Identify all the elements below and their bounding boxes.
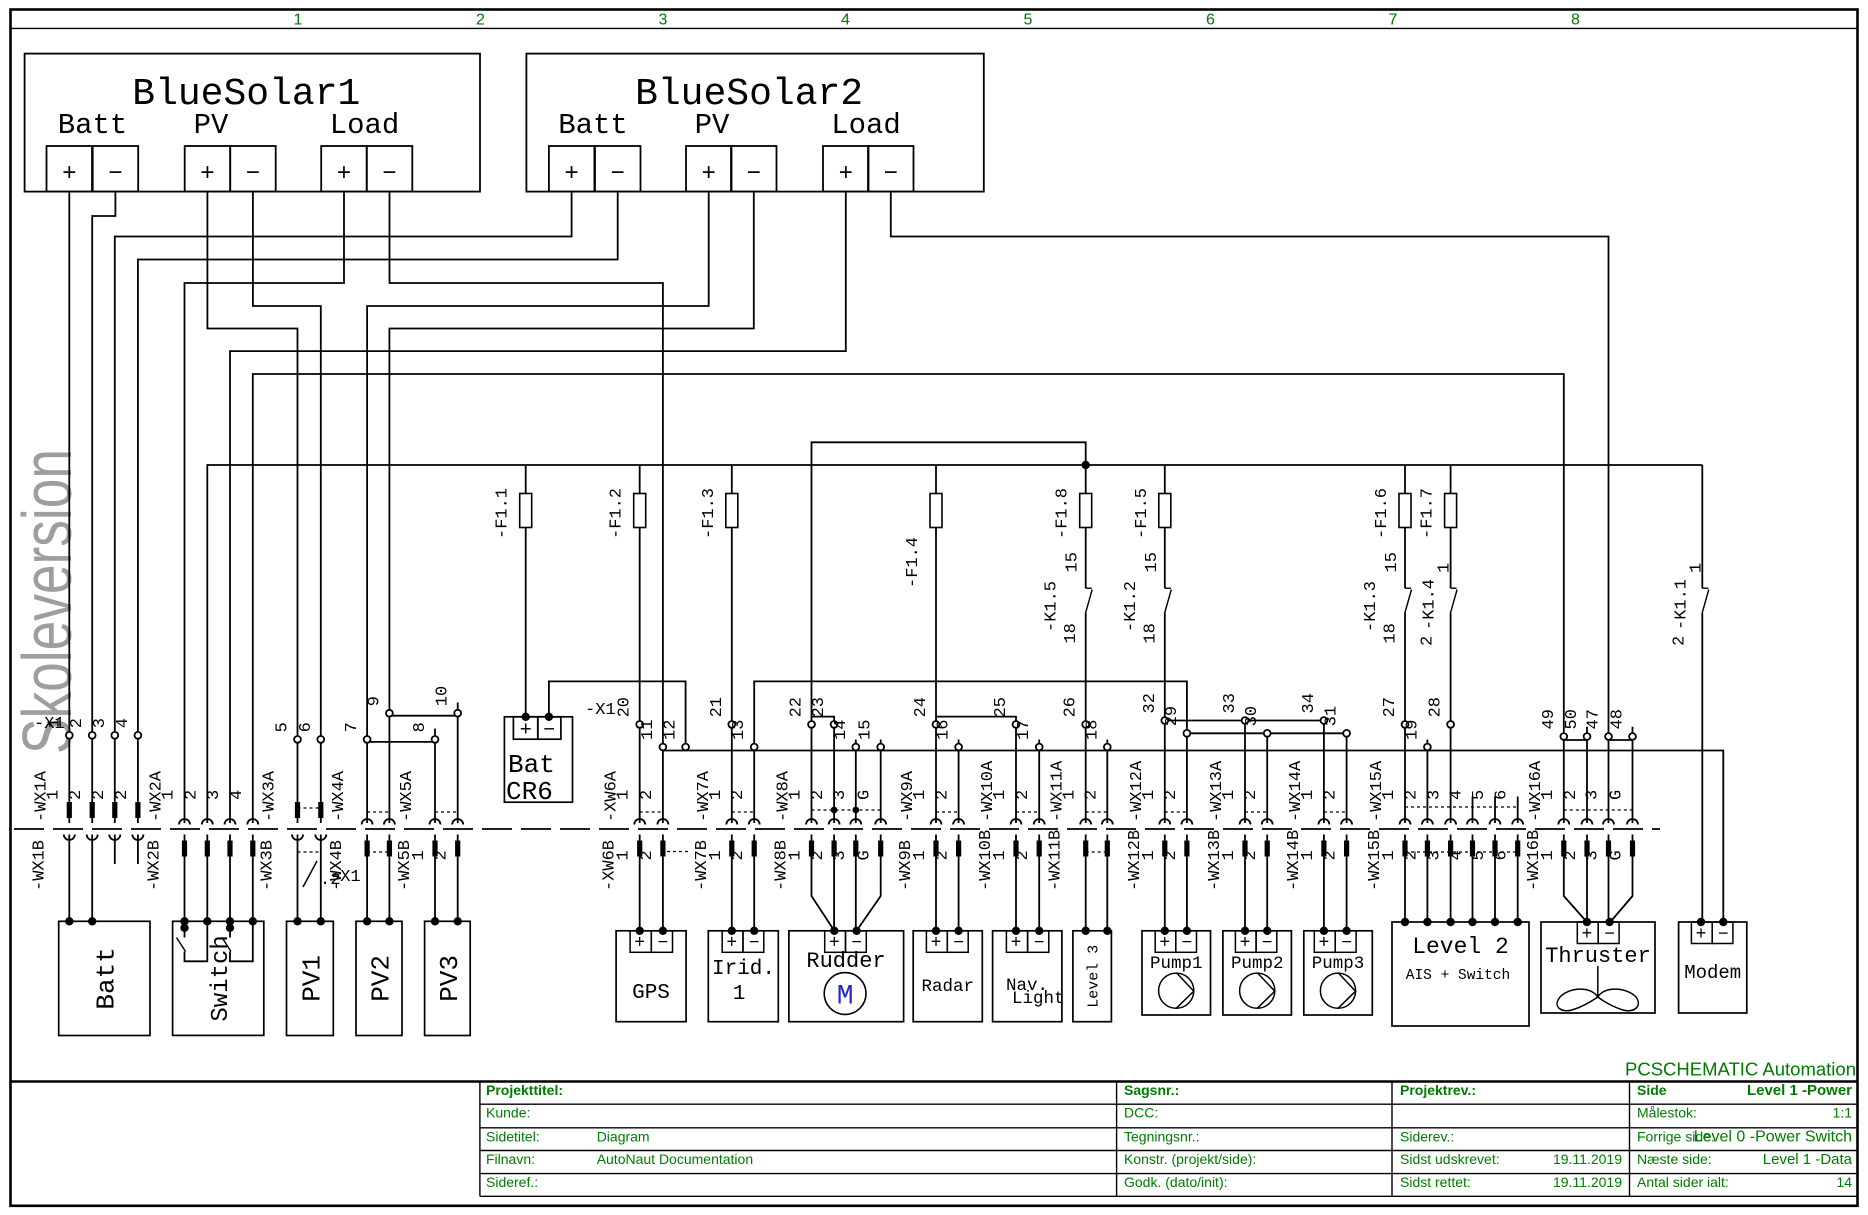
svg-text:1: 1 bbox=[410, 850, 429, 860]
svg-text:49: 49 bbox=[1540, 709, 1559, 729]
svg-text:13: 13 bbox=[730, 720, 749, 740]
svg-text:2: 2 bbox=[1322, 790, 1341, 800]
svg-text:PV: PV bbox=[194, 109, 229, 142]
svg-text:GPS: GPS bbox=[632, 982, 670, 1005]
svg-text:1: 1 bbox=[707, 850, 726, 860]
svg-text:2: 2 bbox=[638, 850, 657, 860]
svg-text:Load: Load bbox=[330, 109, 400, 142]
svg-text:Skoleversion: Skoleversion bbox=[8, 449, 86, 754]
svg-text:1: 1 bbox=[911, 850, 930, 860]
svg-text:+: + bbox=[200, 161, 214, 188]
svg-text:2: 2 bbox=[934, 790, 953, 800]
svg-text:BlueSolar1: BlueSolar1 bbox=[132, 73, 360, 116]
svg-text:+: + bbox=[520, 720, 532, 743]
svg-text:−: − bbox=[246, 161, 260, 188]
svg-text:Næste side:: Næste side: bbox=[1637, 1151, 1712, 1167]
svg-text:-F1.8: -F1.8 bbox=[1054, 488, 1073, 539]
svg-text:PV1: PV1 bbox=[297, 955, 327, 1002]
svg-text:28: 28 bbox=[1427, 697, 1446, 717]
svg-text:Light: Light bbox=[1012, 989, 1065, 1009]
svg-text:−: − bbox=[884, 161, 898, 188]
svg-text:1: 1 bbox=[991, 850, 1010, 860]
svg-text:Sidetitel:: Sidetitel: bbox=[486, 1128, 540, 1144]
svg-text:1: 1 bbox=[787, 790, 806, 800]
svg-text:1: 1 bbox=[1380, 790, 1399, 800]
svg-text:+: + bbox=[1696, 925, 1707, 945]
svg-text:2: 2 bbox=[1402, 790, 1421, 800]
svg-text:10: 10 bbox=[434, 686, 453, 706]
svg-text:-F1.2: -F1.2 bbox=[608, 488, 627, 539]
svg-text:−: − bbox=[1034, 934, 1045, 954]
svg-text:-X1: -X1 bbox=[34, 715, 65, 734]
svg-text:27: 27 bbox=[1381, 697, 1400, 717]
svg-text:1: 1 bbox=[707, 790, 726, 800]
svg-text:Pump2: Pump2 bbox=[1231, 954, 1284, 974]
svg-text:22: 22 bbox=[788, 697, 807, 717]
svg-text:Sagsnr.:: Sagsnr.: bbox=[1124, 1082, 1179, 1098]
svg-text:Godk. (dato/init):: Godk. (dato/init): bbox=[1124, 1174, 1228, 1190]
svg-text:19.11.2019: 19.11.2019 bbox=[1553, 1151, 1622, 1167]
svg-text:Level 1 -Power: Level 1 -Power bbox=[1747, 1082, 1852, 1099]
svg-text:47: 47 bbox=[1585, 709, 1604, 729]
svg-text:2: 2 bbox=[1562, 790, 1581, 800]
svg-text:19.11.2019: 19.11.2019 bbox=[1553, 1174, 1622, 1190]
svg-text:−: − bbox=[108, 161, 122, 188]
svg-text:16: 16 bbox=[935, 720, 954, 740]
svg-text:26: 26 bbox=[1062, 697, 1081, 717]
svg-text:2: 2 bbox=[638, 790, 657, 800]
svg-text:AutoNaut Documentation: AutoNaut Documentation bbox=[597, 1151, 753, 1167]
svg-text:Tegningsnr.:: Tegningsnr.: bbox=[1124, 1128, 1200, 1144]
svg-text:4: 4 bbox=[1448, 790, 1467, 800]
svg-text:8: 8 bbox=[1571, 12, 1580, 29]
svg-text:-WX8B: -WX8B bbox=[773, 840, 792, 891]
svg-text:-WX5B: -WX5B bbox=[396, 840, 415, 891]
svg-text:2: 2 bbox=[1014, 790, 1033, 800]
svg-text:Filnavn:: Filnavn: bbox=[486, 1151, 535, 1167]
svg-text:6: 6 bbox=[1493, 790, 1512, 800]
svg-text:−: − bbox=[657, 934, 668, 954]
svg-text:Diagram: Diagram bbox=[597, 1128, 650, 1144]
svg-text:1: 1 bbox=[991, 790, 1010, 800]
svg-text:G: G bbox=[856, 790, 875, 800]
svg-text:25: 25 bbox=[992, 697, 1011, 717]
svg-text:+: + bbox=[1159, 934, 1170, 954]
svg-text:-WX3B: -WX3B bbox=[259, 840, 278, 891]
svg-text:1: 1 bbox=[1539, 850, 1558, 860]
svg-text:30: 30 bbox=[1243, 706, 1262, 726]
svg-text:Rudder: Rudder bbox=[806, 949, 885, 974]
svg-text:-F1.6: -F1.6 bbox=[1373, 488, 1392, 539]
svg-text:1: 1 bbox=[1299, 790, 1318, 800]
svg-text:-K1.1: -K1.1 bbox=[1672, 579, 1691, 630]
svg-text:−: − bbox=[747, 161, 761, 188]
svg-text:Pump3: Pump3 bbox=[1312, 954, 1365, 974]
svg-text:-WX9B: -WX9B bbox=[897, 840, 916, 891]
svg-text:2: 2 bbox=[67, 790, 86, 800]
svg-text:PV2: PV2 bbox=[366, 955, 396, 1002]
svg-text:+: + bbox=[931, 934, 942, 954]
svg-text:+: + bbox=[839, 161, 853, 188]
svg-text:1: 1 bbox=[1061, 790, 1080, 800]
svg-text:48: 48 bbox=[1609, 709, 1628, 729]
svg-text:18: 18 bbox=[1141, 623, 1160, 643]
svg-text:1: 1 bbox=[1380, 850, 1399, 860]
svg-text:Konstr. (projekt/side):: Konstr. (projekt/side): bbox=[1124, 1151, 1256, 1167]
svg-text:32: 32 bbox=[1141, 693, 1160, 713]
svg-text:+: + bbox=[701, 161, 715, 188]
svg-text:1: 1 bbox=[615, 790, 634, 800]
svg-text:+: + bbox=[564, 161, 578, 188]
svg-text:3: 3 bbox=[659, 12, 668, 29]
svg-text:5: 5 bbox=[1470, 790, 1489, 800]
svg-text:Radar: Radar bbox=[921, 977, 974, 997]
svg-text:-K1.2: -K1.2 bbox=[1122, 581, 1141, 632]
svg-text:Level 3: Level 3 bbox=[1086, 945, 1103, 1008]
svg-text:Projektrev.:: Projektrev.: bbox=[1400, 1082, 1476, 1098]
svg-text:2: 2 bbox=[182, 790, 201, 800]
svg-text:+: + bbox=[634, 934, 645, 954]
svg-text:Switch: Switch bbox=[208, 935, 235, 1021]
svg-text:-WX5A: -WX5A bbox=[398, 770, 417, 822]
svg-text:6: 6 bbox=[297, 722, 316, 732]
svg-text:−: − bbox=[1718, 925, 1729, 945]
svg-text:1: 1 bbox=[615, 850, 634, 860]
svg-text:-WX3A: -WX3A bbox=[261, 770, 280, 822]
svg-text:+: + bbox=[1240, 934, 1251, 954]
svg-text:18: 18 bbox=[1062, 623, 1081, 643]
svg-text:Bat: Bat bbox=[508, 750, 555, 780]
svg-text:1: 1 bbox=[1687, 563, 1706, 573]
svg-text:3: 3 bbox=[1584, 790, 1603, 800]
svg-text:PV: PV bbox=[695, 109, 730, 142]
svg-text:34: 34 bbox=[1300, 693, 1319, 713]
svg-text:+: + bbox=[62, 161, 76, 188]
svg-text:−: − bbox=[543, 720, 555, 743]
svg-text:50: 50 bbox=[1563, 709, 1582, 729]
svg-text:Level 1 -Data: Level 1 -Data bbox=[1763, 1151, 1853, 1168]
svg-text:AIS + Switch: AIS + Switch bbox=[1406, 968, 1510, 984]
svg-text:18: 18 bbox=[1083, 720, 1102, 740]
svg-text:Modem: Modem bbox=[1684, 962, 1741, 984]
svg-text:+: + bbox=[726, 934, 737, 954]
svg-text:18: 18 bbox=[1382, 623, 1401, 643]
svg-text:20: 20 bbox=[616, 697, 635, 717]
svg-text:2: 2 bbox=[1242, 790, 1261, 800]
svg-text:-WX11B: -WX11B bbox=[1047, 830, 1066, 891]
svg-text:1: 1 bbox=[1220, 850, 1239, 860]
svg-text:−: − bbox=[953, 934, 964, 954]
svg-text:2: 2 bbox=[1670, 636, 1689, 646]
svg-text:PV3: PV3 bbox=[435, 955, 465, 1002]
svg-text:Sideref.:: Sideref.: bbox=[486, 1174, 538, 1190]
svg-text:29: 29 bbox=[1163, 706, 1182, 726]
svg-text:-WX7B: -WX7B bbox=[693, 840, 712, 891]
svg-text:Projekttitel:: Projekttitel: bbox=[486, 1082, 563, 1098]
svg-text:1: 1 bbox=[44, 790, 63, 800]
svg-text:7: 7 bbox=[343, 722, 362, 732]
svg-text:1: 1 bbox=[1140, 790, 1159, 800]
svg-text:Sidst udskrevet:: Sidst udskrevet: bbox=[1400, 1151, 1500, 1167]
svg-text:2: 2 bbox=[1562, 850, 1581, 860]
svg-text:-X1: -X1 bbox=[585, 701, 616, 720]
svg-text:2: 2 bbox=[90, 790, 109, 800]
svg-text:Batt: Batt bbox=[558, 109, 628, 142]
svg-text:2: 2 bbox=[1162, 790, 1181, 800]
svg-text:-F1.7: -F1.7 bbox=[1419, 488, 1438, 539]
svg-text:Sidst rettet:: Sidst rettet: bbox=[1400, 1174, 1471, 1190]
svg-text:1:1: 1:1 bbox=[1833, 1105, 1853, 1121]
svg-text:CR6: CR6 bbox=[506, 777, 553, 807]
svg-text:Side: Side bbox=[1637, 1082, 1667, 1098]
svg-text:2: 2 bbox=[1082, 790, 1101, 800]
svg-text:−: − bbox=[382, 161, 396, 188]
svg-text:3: 3 bbox=[91, 718, 110, 728]
svg-text:1: 1 bbox=[160, 790, 179, 800]
svg-text:4: 4 bbox=[841, 12, 850, 29]
svg-text:-K1.4: -K1.4 bbox=[1421, 579, 1440, 630]
svg-text:7: 7 bbox=[1389, 12, 1398, 29]
svg-text:1: 1 bbox=[294, 12, 303, 29]
svg-text:−: − bbox=[1181, 934, 1192, 954]
svg-text:+: + bbox=[1011, 934, 1022, 954]
svg-text:Antal sider ialt:: Antal sider ialt: bbox=[1637, 1174, 1729, 1190]
svg-text:-K1.5: -K1.5 bbox=[1043, 581, 1062, 632]
svg-text:15: 15 bbox=[857, 720, 876, 740]
svg-text:1: 1 bbox=[1539, 790, 1558, 800]
svg-text:-XW6B: -XW6B bbox=[601, 840, 620, 891]
svg-text:15: 15 bbox=[1064, 552, 1083, 572]
svg-text:4: 4 bbox=[114, 718, 133, 728]
svg-text:-X1: -X1 bbox=[330, 868, 361, 887]
svg-text:−: − bbox=[1341, 934, 1352, 954]
svg-text:1: 1 bbox=[787, 850, 806, 860]
svg-text:2: 2 bbox=[68, 718, 87, 728]
svg-text:Load: Load bbox=[831, 109, 901, 142]
svg-text:Thruster: Thruster bbox=[1545, 944, 1651, 969]
svg-text:15: 15 bbox=[1383, 552, 1402, 572]
svg-text:2: 2 bbox=[729, 790, 748, 800]
svg-text:19: 19 bbox=[1403, 720, 1422, 740]
svg-text:Level 0 -Power Switch: Level 0 -Power Switch bbox=[1694, 1128, 1852, 1145]
svg-text:4: 4 bbox=[228, 790, 247, 800]
svg-text:8: 8 bbox=[411, 722, 430, 732]
svg-text:3: 3 bbox=[1426, 790, 1445, 800]
svg-text:1: 1 bbox=[1436, 563, 1455, 573]
svg-text:Målestok:: Målestok: bbox=[1637, 1105, 1697, 1121]
svg-text:1: 1 bbox=[733, 983, 746, 1006]
svg-text:Batt: Batt bbox=[92, 947, 122, 1009]
svg-text:−: − bbox=[749, 934, 760, 954]
svg-text:24: 24 bbox=[912, 697, 931, 717]
svg-text:-WX4A: -WX4A bbox=[330, 770, 349, 822]
svg-text:2: 2 bbox=[476, 12, 485, 29]
svg-text:11: 11 bbox=[639, 720, 658, 740]
svg-text:2: 2 bbox=[1014, 850, 1033, 860]
svg-text:23: 23 bbox=[810, 697, 829, 717]
svg-text:3: 3 bbox=[1426, 850, 1445, 860]
svg-text:33: 33 bbox=[1221, 693, 1240, 713]
svg-text:17: 17 bbox=[1015, 720, 1034, 740]
svg-text:3: 3 bbox=[205, 790, 224, 800]
svg-text:Pump1: Pump1 bbox=[1150, 954, 1203, 974]
svg-text:14: 14 bbox=[1836, 1174, 1852, 1190]
svg-text:15: 15 bbox=[1143, 552, 1162, 572]
svg-text:-F1.5: -F1.5 bbox=[1133, 488, 1152, 539]
svg-text:-F1.4: -F1.4 bbox=[904, 537, 923, 588]
svg-text:G: G bbox=[1608, 850, 1627, 860]
svg-text:1: 1 bbox=[1220, 790, 1239, 800]
svg-text:-WX1B: -WX1B bbox=[30, 840, 49, 891]
svg-text:−: − bbox=[610, 161, 624, 188]
svg-text:12: 12 bbox=[662, 720, 681, 740]
svg-text:−: − bbox=[1262, 934, 1273, 954]
svg-text:-K1.3: -K1.3 bbox=[1362, 581, 1381, 632]
svg-text:BlueSolar2: BlueSolar2 bbox=[635, 73, 863, 116]
svg-text:2: 2 bbox=[113, 790, 132, 800]
svg-text:PCSCHEMATIC Automation: PCSCHEMATIC Automation bbox=[1625, 1059, 1856, 1080]
svg-text:G: G bbox=[856, 850, 875, 860]
svg-text:Kunde:: Kunde: bbox=[486, 1105, 530, 1121]
svg-text:+: + bbox=[1318, 934, 1329, 954]
svg-text:5: 5 bbox=[274, 722, 293, 732]
svg-text:2: 2 bbox=[809, 790, 828, 800]
svg-text:−: − bbox=[1604, 925, 1615, 945]
svg-text:2: 2 bbox=[1419, 636, 1438, 646]
svg-text:3: 3 bbox=[831, 790, 850, 800]
svg-text:1: 1 bbox=[1140, 850, 1159, 860]
svg-text:Batt: Batt bbox=[58, 109, 128, 142]
svg-text:21: 21 bbox=[708, 697, 727, 717]
svg-text:G: G bbox=[1608, 790, 1627, 800]
svg-text:Level 2: Level 2 bbox=[1412, 934, 1509, 960]
svg-text:DCC:: DCC: bbox=[1124, 1105, 1158, 1121]
svg-text:+: + bbox=[337, 161, 351, 188]
svg-text:-F1.1: -F1.1 bbox=[494, 488, 513, 539]
svg-text:M: M bbox=[837, 982, 854, 1013]
svg-text:-F1.3: -F1.3 bbox=[700, 488, 719, 539]
svg-text:31: 31 bbox=[1323, 706, 1342, 726]
svg-text:1: 1 bbox=[911, 790, 930, 800]
svg-text:14: 14 bbox=[832, 720, 851, 740]
svg-text:1: 1 bbox=[1299, 850, 1318, 860]
svg-text:5: 5 bbox=[1024, 12, 1033, 29]
svg-text:Irid.: Irid. bbox=[712, 958, 775, 981]
svg-text:9: 9 bbox=[365, 696, 384, 706]
svg-text:-WX2B: -WX2B bbox=[146, 840, 165, 891]
svg-text:6: 6 bbox=[1206, 12, 1215, 29]
svg-text:+: + bbox=[1581, 925, 1592, 945]
svg-text:Siderev.:: Siderev.: bbox=[1400, 1128, 1454, 1144]
